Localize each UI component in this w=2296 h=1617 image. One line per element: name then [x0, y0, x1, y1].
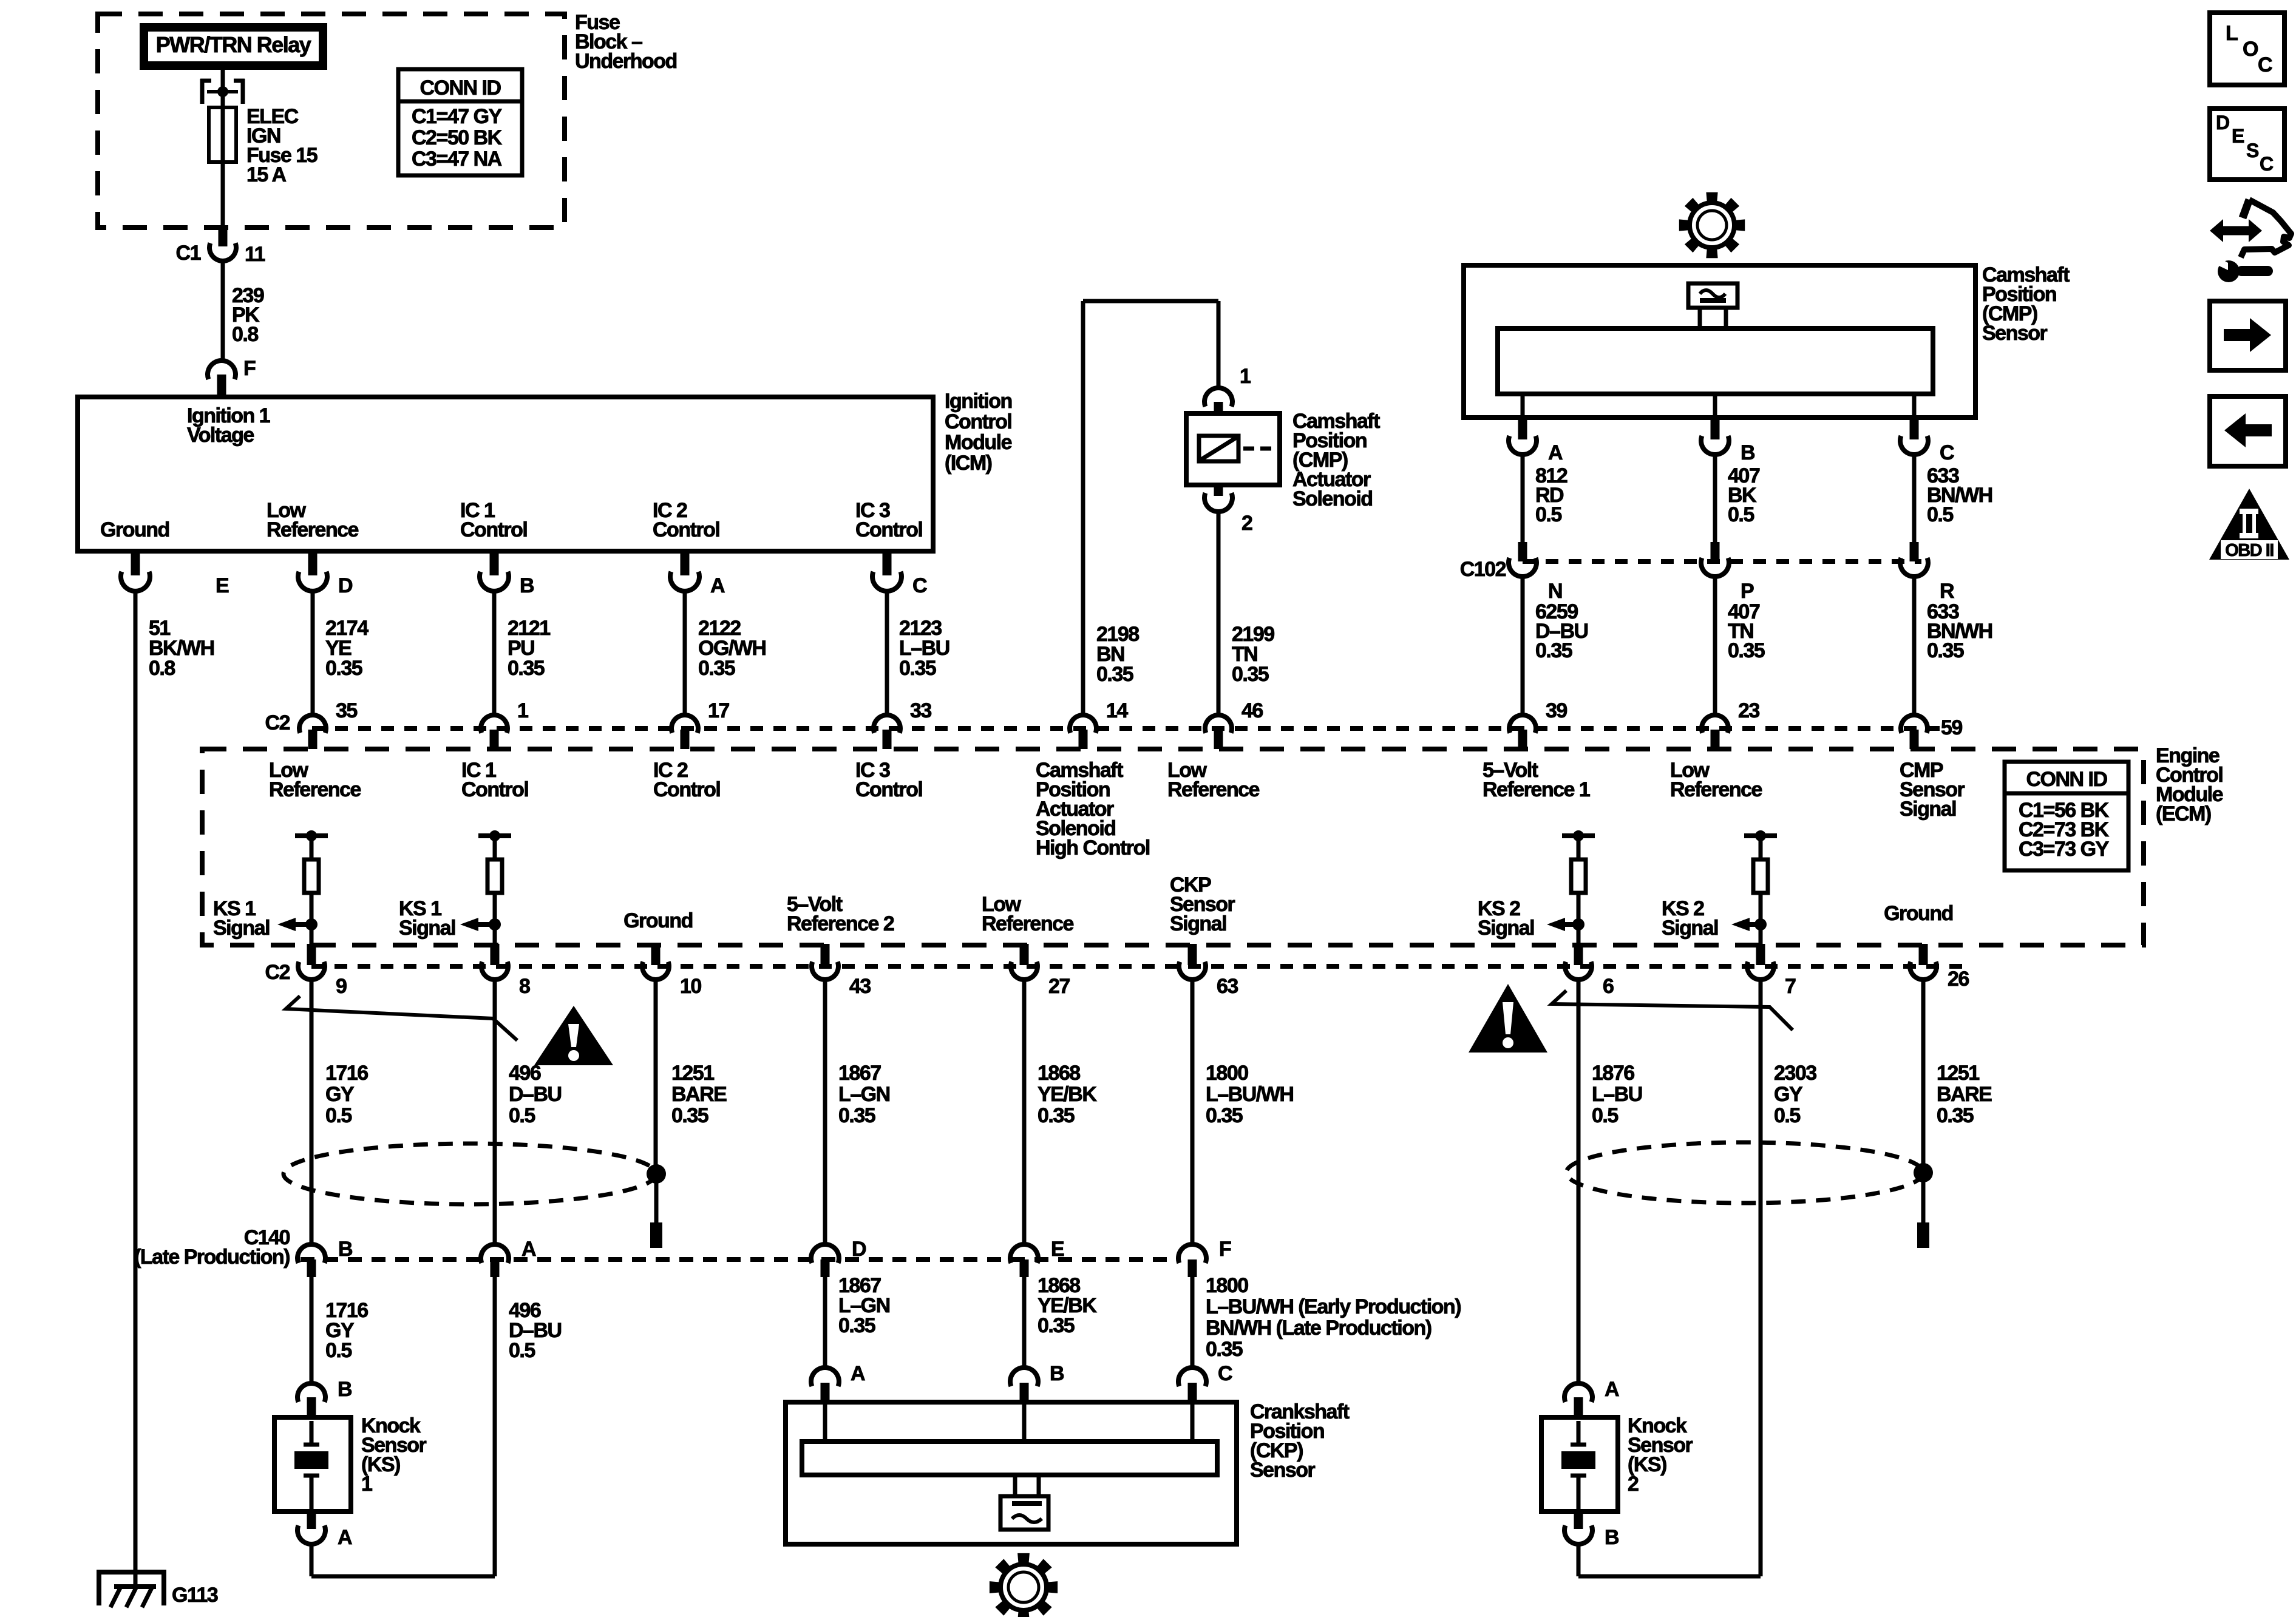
svg-text:0.35: 0.35: [899, 657, 936, 680]
svg-text:0.5: 0.5: [1774, 1104, 1800, 1127]
svg-text:Signal: Signal: [1170, 912, 1226, 935]
svg-text:0.5: 0.5: [509, 1339, 535, 1362]
svg-text:L–GN: L–GN: [838, 1083, 890, 1106]
svg-text:Ground: Ground: [623, 909, 693, 932]
svg-text:BN/WH (Late Production): BN/WH (Late Production): [1206, 1317, 1432, 1340]
svg-text:0.35: 0.35: [1038, 1104, 1075, 1127]
svg-text:0.5: 0.5: [1535, 503, 1561, 526]
svg-text:BARE: BARE: [1937, 1083, 1992, 1106]
svg-text:33: 33: [910, 699, 931, 722]
svg-text:G113: G113: [172, 1584, 218, 1607]
svg-text:1876: 1876: [1592, 1062, 1634, 1085]
svg-text:2: 2: [1241, 512, 1252, 535]
svg-text:C3=73 GY: C3=73 GY: [2019, 838, 2110, 861]
svg-text:0.5: 0.5: [509, 1104, 535, 1127]
svg-text:Sensor: Sensor: [1982, 322, 2048, 345]
svg-text:0.35: 0.35: [1728, 639, 1765, 662]
svg-text:BARE: BARE: [671, 1083, 727, 1106]
svg-text:B: B: [338, 1378, 352, 1401]
svg-text:0.35: 0.35: [1038, 1314, 1075, 1337]
svg-text:N: N: [1548, 580, 1562, 603]
svg-text:7: 7: [1785, 975, 1796, 998]
svg-text:0.35: 0.35: [508, 657, 545, 680]
svg-text:C1=47 GY: C1=47 GY: [412, 105, 503, 128]
svg-text:0.35: 0.35: [325, 657, 362, 680]
svg-text:0.35: 0.35: [1206, 1338, 1243, 1361]
svg-text:Control: Control: [945, 410, 1011, 433]
svg-text:Ground: Ground: [1884, 902, 1953, 925]
svg-text:Signal: Signal: [399, 917, 455, 940]
svg-text:C: C: [2258, 53, 2272, 76]
svg-text:0.5: 0.5: [1592, 1104, 1618, 1127]
svg-text:Control: Control: [653, 778, 720, 801]
svg-text:C: C: [1218, 1362, 1232, 1385]
svg-text:Solenoid: Solenoid: [1292, 487, 1373, 510]
svg-text:P: P: [1741, 580, 1754, 603]
svg-text:1251: 1251: [1937, 1062, 1979, 1085]
svg-text:0.5: 0.5: [325, 1104, 352, 1127]
svg-text:0.8: 0.8: [232, 323, 258, 346]
svg-text:L–BU/WH (Early Production): L–BU/WH (Early Production): [1206, 1295, 1461, 1318]
svg-text:Ground: Ground: [100, 518, 169, 541]
svg-text:A: A: [1548, 441, 1563, 464]
svg-text:Reference 2: Reference 2: [787, 912, 894, 935]
svg-text:0.35: 0.35: [1096, 663, 1133, 686]
svg-text:A: A: [851, 1362, 865, 1385]
svg-text:1: 1: [517, 699, 528, 722]
svg-text:15 A: 15 A: [246, 163, 287, 186]
svg-text:Reference: Reference: [982, 912, 1074, 935]
svg-text:23: 23: [1738, 699, 1759, 722]
svg-text:YE/BK: YE/BK: [1038, 1083, 1097, 1106]
svg-text:46: 46: [1241, 699, 1263, 722]
svg-text:1800: 1800: [1206, 1274, 1248, 1297]
svg-text:10: 10: [680, 975, 701, 998]
svg-text:C1: C1: [176, 242, 201, 265]
svg-text:0.35: 0.35: [698, 657, 735, 680]
svg-text:Underhood: Underhood: [575, 50, 677, 73]
svg-text:Reference: Reference: [1167, 778, 1260, 801]
svg-text:(ICM): (ICM): [945, 452, 992, 475]
svg-text:Signal: Signal: [213, 917, 270, 940]
svg-text:GY: GY: [1774, 1083, 1803, 1106]
svg-text:1251: 1251: [671, 1062, 714, 1085]
svg-text:D–BU: D–BU: [509, 1083, 562, 1106]
svg-text:B: B: [1741, 441, 1755, 464]
svg-text:E: E: [1051, 1238, 1064, 1261]
svg-text:C2: C2: [265, 711, 290, 734]
svg-text:1716: 1716: [325, 1062, 368, 1085]
svg-text:0.35: 0.35: [1937, 1104, 1974, 1127]
svg-text:1: 1: [1240, 365, 1251, 388]
svg-text:6: 6: [1603, 975, 1614, 998]
svg-text:Module: Module: [945, 431, 1012, 454]
svg-text:14: 14: [1106, 699, 1128, 722]
svg-text:PWR/TRN Relay: PWR/TRN Relay: [156, 32, 311, 57]
svg-text:Ignition: Ignition: [945, 390, 1012, 413]
svg-text:Reference: Reference: [267, 518, 359, 541]
svg-text:Reference: Reference: [1670, 778, 1762, 801]
svg-text:0.5: 0.5: [1927, 503, 1953, 526]
svg-text:17: 17: [708, 699, 729, 722]
svg-text:C: C: [912, 574, 927, 597]
svg-text:0.8: 0.8: [149, 657, 175, 680]
svg-text:L–BU/WH: L–BU/WH: [1206, 1083, 1293, 1106]
svg-text:0.35: 0.35: [1535, 639, 1572, 662]
svg-text:E: E: [2232, 125, 2244, 147]
svg-text:0.35: 0.35: [1927, 639, 1964, 662]
svg-text:C2: C2: [265, 961, 290, 984]
svg-text:L: L: [2226, 22, 2238, 45]
svg-text:B: B: [1605, 1526, 1619, 1549]
svg-text:CONN ID: CONN ID: [2026, 768, 2107, 791]
svg-text:39: 39: [1546, 699, 1567, 722]
svg-text:9: 9: [336, 975, 347, 998]
svg-text:2303: 2303: [1774, 1062, 1816, 1085]
svg-text:C102: C102: [1460, 558, 1506, 581]
svg-text:2: 2: [1628, 1473, 1639, 1496]
svg-text:C: C: [1940, 441, 1954, 464]
svg-text:8: 8: [519, 975, 530, 998]
svg-text:Reference 1: Reference 1: [1483, 778, 1590, 801]
svg-text:1868: 1868: [1038, 1062, 1080, 1085]
svg-text:R: R: [1940, 580, 1954, 603]
svg-text:Control: Control: [855, 778, 922, 801]
svg-text:A: A: [1605, 1378, 1619, 1401]
svg-text:Voltage: Voltage: [187, 424, 254, 447]
svg-text:A: A: [521, 1238, 536, 1261]
svg-text:0.5: 0.5: [325, 1339, 352, 1362]
svg-text:O: O: [2243, 38, 2258, 61]
svg-text:59: 59: [1941, 716, 1962, 739]
svg-text:0.5: 0.5: [1728, 503, 1754, 526]
svg-text:C3=47 NA: C3=47 NA: [412, 147, 502, 171]
svg-text:Reference: Reference: [269, 778, 361, 801]
svg-text:27: 27: [1048, 975, 1070, 998]
svg-text:11: 11: [245, 243, 265, 266]
svg-text:0.35: 0.35: [838, 1104, 875, 1127]
svg-text:1867: 1867: [838, 1062, 881, 1085]
svg-text:High Control: High Control: [1036, 836, 1150, 859]
svg-text:496: 496: [509, 1062, 541, 1085]
svg-text:S: S: [2246, 140, 2259, 161]
svg-text:35: 35: [336, 699, 357, 722]
svg-text:Control: Control: [653, 518, 719, 541]
svg-text:CONN ID: CONN ID: [419, 76, 501, 100]
svg-text:Control: Control: [460, 518, 527, 541]
svg-text:GY: GY: [325, 1083, 355, 1106]
svg-text:1800: 1800: [1206, 1062, 1248, 1085]
svg-text:B: B: [1050, 1362, 1064, 1385]
svg-text:Sensor: Sensor: [1250, 1459, 1316, 1482]
svg-text:(Late Production): (Late Production): [134, 1246, 290, 1269]
svg-text:D: D: [338, 574, 353, 597]
svg-text:B: B: [520, 574, 534, 597]
svg-text:E: E: [216, 574, 229, 597]
svg-text:26: 26: [1948, 968, 1969, 991]
svg-text:F: F: [243, 357, 256, 380]
svg-text:OBD II: OBD II: [2225, 541, 2274, 560]
svg-text:C: C: [2260, 153, 2274, 175]
svg-text:Signal: Signal: [1662, 917, 1718, 940]
svg-text:0.35: 0.35: [838, 1314, 875, 1337]
svg-text:F: F: [1219, 1238, 1231, 1261]
svg-text:A: A: [338, 1526, 352, 1549]
svg-text:Control: Control: [855, 518, 922, 541]
svg-text:A: A: [710, 574, 725, 597]
svg-text:B: B: [338, 1238, 353, 1261]
svg-text:D: D: [852, 1238, 866, 1261]
svg-text:Signal: Signal: [1478, 917, 1534, 940]
svg-text:Control: Control: [461, 778, 528, 801]
svg-text:(ECM): (ECM): [2156, 802, 2211, 825]
svg-text:1: 1: [361, 1473, 372, 1496]
svg-text:63: 63: [1217, 975, 1238, 998]
svg-text:L–BU: L–BU: [1592, 1083, 1642, 1106]
svg-text:D: D: [2216, 112, 2229, 134]
svg-text:43: 43: [849, 975, 871, 998]
svg-text:0.35: 0.35: [1206, 1104, 1243, 1127]
svg-text:Signal: Signal: [1900, 798, 1956, 821]
svg-text:C2=50 BK: C2=50 BK: [412, 126, 503, 149]
svg-text:0.35: 0.35: [671, 1104, 708, 1127]
svg-text:0.35: 0.35: [1232, 663, 1269, 686]
